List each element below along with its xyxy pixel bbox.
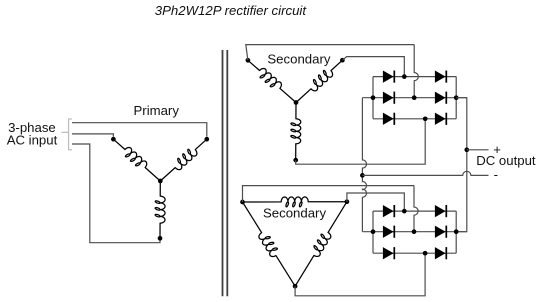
node: bridge 2 left bus junction: [371, 229, 376, 234]
wire: bridge 2 left bus: [372, 211, 374, 253]
wire: bridge 1 right bus: [455, 77, 457, 119]
svg-text:Primary: Primary: [134, 103, 180, 118]
diode D8: [435, 205, 446, 217]
wire: wye terminal 2 to bridge 1 row 1: [342, 57, 404, 75]
wire: bridge 2 row 3 rail: [373, 252, 456, 254]
node: bridge 2 right bus junction: [454, 229, 459, 234]
node: bridge 1 row 2 phase tap: [412, 95, 417, 100]
diode D11: [383, 247, 394, 259]
wire: AC phase 3 input to primary terminal B: [72, 144, 160, 243]
node: bridge 1 right bus junction: [454, 95, 459, 100]
wye secondary winding 1: [248, 60, 296, 102]
wire: negative bus bridge1 to bridge2 with hops: [362, 98, 366, 232]
wire: delta vertex 2 to bridge 2 row 1: [347, 193, 404, 209]
node: bridge 2 row 1 phase tap: [402, 209, 407, 214]
diode D9: [383, 226, 394, 238]
wire: AC phase 2 input to primary terminal A: [72, 134, 113, 137]
primary winding phase C coil: [160, 139, 207, 181]
svg-text:3Ph2W12P rectifier circuit: 3Ph2W12P rectifier circuit: [155, 3, 308, 18]
wire: wye terminal 1 to bridge 1 row 2: [246, 45, 414, 61]
node: delta vertex 1 (top-left): [240, 200, 245, 205]
node: bridge 2 row 3 phase tap: [423, 251, 428, 256]
wye secondary winding 3: [291, 103, 301, 161]
delta secondary winding left: [243, 202, 296, 286]
wire: bridge 2 row 2 rail: [362, 231, 466, 233]
wire: bridge 1 row 2 feed with hop over row 1: [414, 45, 418, 96]
diode D7: [383, 205, 394, 217]
wire: bridge 1 left bus: [372, 77, 374, 119]
wire: bridge 2 right bus: [455, 211, 457, 253]
wire: positive bus bridge1 to bridge2: [456, 98, 467, 232]
node: wye secondary terminal 3: [293, 158, 298, 163]
wye secondary winding 2: [296, 60, 342, 102]
svg-text:AC input: AC input: [7, 133, 58, 148]
wire: delta vertex 1 to bridge 2 row 2 feed: [243, 186, 415, 202]
node: positive output tap: [464, 147, 469, 152]
svg-text:-: -: [494, 167, 498, 182]
diode D12: [435, 247, 446, 259]
diode D1: [383, 71, 394, 83]
node: delta vertex 3 (bottom): [293, 284, 298, 289]
delta secondary winding right: [295, 202, 347, 287]
delta secondary winding top: [243, 197, 347, 207]
diode D6: [435, 113, 446, 125]
node: bridge 1 row 3 phase tap: [423, 116, 428, 121]
transformer core bars: [223, 50, 228, 296]
node: negative output tap: [360, 173, 365, 178]
svg-text:Secondary: Secondary: [263, 206, 326, 221]
node: primary terminal A: [111, 137, 116, 142]
node: wye secondary terminal 1: [246, 58, 251, 63]
svg-text:Secondary: Secondary: [267, 52, 330, 67]
node: bridge 2 row 2 phase tap: [412, 229, 417, 234]
wire: wye terminal 3 to bridge 1 row 3: [296, 121, 426, 164]
node: primary terminal C: [204, 137, 209, 142]
wire: bridge 1 row 1 rail: [373, 76, 456, 78]
node: bridge 1 row 1 phase tap: [402, 74, 407, 79]
node: bridge 1 left bus junction: [371, 95, 376, 100]
node: wye secondary center: [294, 100, 299, 105]
svg-text:DC output: DC output: [476, 153, 536, 168]
diode D10: [435, 226, 446, 238]
wire: bridge 2 row 2 feed with hop over row 1: [414, 186, 418, 230]
node: primary neutral center: [158, 179, 163, 184]
input bracket: [62, 119, 73, 150]
wire: negative DC output lead with hop over positive bus: [362, 171, 488, 175]
node: delta vertex 2 (top-right): [345, 199, 350, 204]
node: wye secondary terminal 2: [340, 58, 345, 63]
node: primary terminal B: [158, 236, 163, 241]
wire: AC phase 1 input to primary terminal C: [72, 123, 207, 137]
wire: bridge 2 row 1 rail: [373, 210, 456, 212]
diode D2: [435, 71, 446, 83]
primary winding phase A coil: [113, 139, 160, 181]
wire: positive DC output lead: [467, 149, 489, 151]
wire: bridge 1 row 3 rail: [373, 118, 456, 120]
diode D4: [435, 92, 446, 104]
diode D3: [383, 92, 394, 104]
primary winding phase B coil: [155, 181, 165, 238]
wire: bridge 1 row 2 rail: [362, 97, 466, 99]
wire: delta vertex 3 to bridge 2 row 3: [295, 255, 425, 295]
diode D5: [383, 113, 394, 125]
